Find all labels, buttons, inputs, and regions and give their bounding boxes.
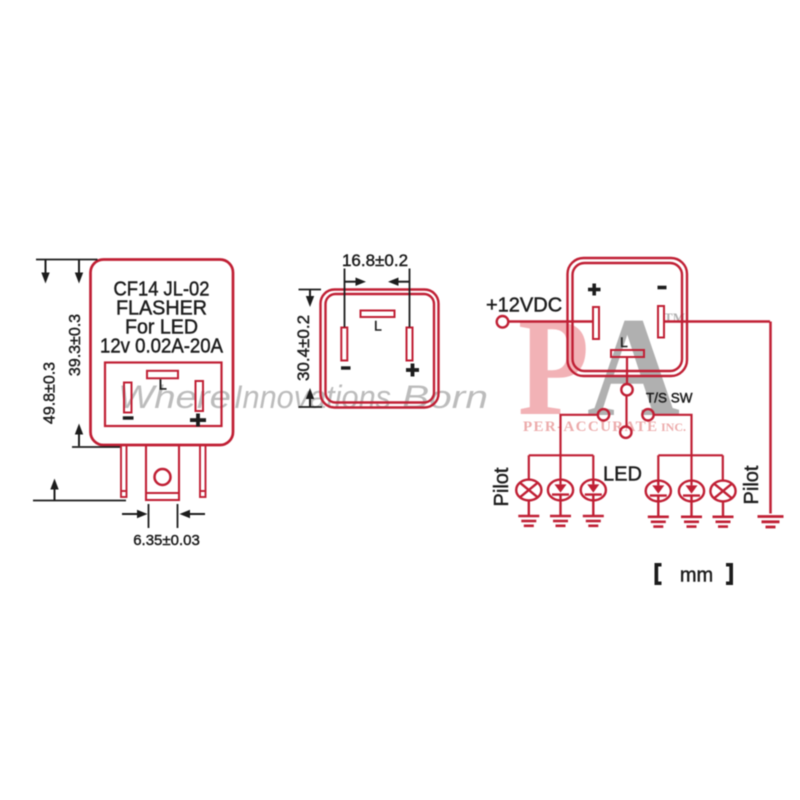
left group rail: [529, 454, 594, 456]
dimension line at body bottom: [72, 446, 120, 448]
bottom view outer outline: [321, 290, 439, 408]
svg-text:L: L: [374, 318, 382, 334]
tab hole: [155, 469, 171, 485]
dimension arrow right (16.8): [345, 278, 367, 286]
dimension arrow up (39.3): [75, 424, 83, 447]
ground (LED 2 left): [583, 516, 604, 526]
svg-text:LED: LED: [603, 464, 642, 486]
dimension arrow up (49.8): [50, 479, 58, 501]
dimension arrow left (6.35): [180, 510, 206, 518]
svg-text:30.4±0.2: 30.4±0.2: [294, 315, 313, 381]
svg-text:mm: mm: [680, 565, 713, 587]
svg-text:T/S SW: T/S SW: [646, 391, 693, 406]
svg-text:INC.: INC.: [661, 420, 686, 434]
switch pole wire: [625, 395, 627, 426]
label plus (bottom view): [406, 364, 419, 377]
right group rail: [658, 454, 723, 456]
relay body outline: [91, 260, 234, 446]
dimension line at box bottom: [299, 406, 323, 408]
bottom mounting tab: [146, 445, 179, 500]
dimension arrow right (6.35): [122, 510, 148, 518]
dimension line at box top: [299, 289, 322, 291]
relay box outer outline: [568, 258, 688, 376]
pin plus bar (schematic): [593, 307, 599, 339]
supply terminal: [497, 316, 509, 328]
dimension arrow down (30.4): [306, 290, 314, 307]
ground (battery return, far right): [758, 517, 784, 528]
watermark logo letter A: [587, 288, 680, 446]
svg-text:6.35±0.03: 6.35±0.03: [133, 532, 200, 549]
svg-text:Born: Born: [402, 379, 488, 415]
svg-text:49.8±0.3: 49.8±0.3: [42, 362, 59, 424]
bottom view inner outline: [326, 294, 435, 403]
LED 1 right: [646, 481, 671, 516]
node circle under L: [621, 384, 632, 395]
left rail drop right: [592, 455, 594, 480]
wire right throw to right group: [654, 415, 692, 456]
extension line right pin: [409, 269, 411, 328]
extension line tab right: [177, 504, 179, 528]
wire supply to plus pin: [509, 320, 594, 322]
left rail drop left: [528, 455, 530, 480]
svg-text:L: L: [159, 377, 167, 394]
pin L slot (bottom view): [361, 311, 395, 318]
label plus (schematic): [588, 284, 601, 296]
left feed drop: [559, 455, 561, 484]
pin plus slot: [196, 381, 204, 411]
dimension arrow down (39.3): [75, 260, 83, 284]
LED 2 right: [679, 481, 704, 516]
pilot lamp right: [710, 481, 735, 516]
watermark TM mark: [664, 310, 685, 325]
LED 2 left: [581, 480, 606, 515]
dimension arrow left (16.8): [388, 278, 410, 286]
svg-text:16.8±0.2: 16.8±0.2: [342, 251, 408, 270]
bottom terminal pin left: [121, 445, 127, 497]
pin plus slot (bottom view): [407, 328, 413, 361]
right feed drop: [690, 455, 692, 485]
watermark logo letter P: [518, 289, 589, 445]
watermark text INC.: [661, 420, 686, 434]
pin face inner rectangle: [105, 363, 222, 427]
units note bracket right: [726, 563, 733, 585]
svg-text:Pilot: Pilot: [491, 467, 513, 506]
ground (pilot lamp left): [518, 516, 539, 526]
ground (LED 1 right): [648, 517, 669, 527]
svg-text:L: L: [620, 334, 628, 350]
switch throw contact right: [642, 409, 653, 420]
watermark script "Where Innovations Born": [118, 379, 488, 415]
pin L bar (schematic): [611, 350, 644, 357]
svg-text:Where: Where: [118, 379, 231, 415]
svg-text:12v 0.02A-20A: 12v 0.02A-20A: [100, 336, 224, 358]
watermark text PER-ACCURATE: [523, 419, 657, 435]
ground (LED 1 left): [550, 516, 571, 526]
svg-text:+12VDC: +12VDC: [486, 295, 562, 317]
label minus: [123, 416, 134, 419]
extension line tab left: [148, 504, 150, 528]
wire minus pin to right: [664, 320, 770, 322]
wire left throw to left group: [561, 415, 598, 456]
dimension arrow up (30.4): [306, 388, 314, 407]
pin minus slot: [124, 383, 132, 413]
switch throw contact left: [598, 409, 609, 420]
relay box inner outline: [573, 263, 683, 371]
right rail drop right: [722, 455, 724, 480]
svg-text:39.3±0.3: 39.3±0.3: [67, 314, 84, 376]
label minus (schematic): [658, 286, 667, 290]
units note bracket left: [655, 563, 662, 585]
dimension line at pin bottom: [33, 500, 126, 502]
bottom terminal pin right: [200, 445, 206, 497]
extension line left pin: [344, 269, 346, 328]
svg-text:PER-ACCURATE: PER-ACCURATE: [523, 419, 657, 435]
pin minus slot (bottom view): [341, 328, 347, 361]
ground (pilot lamp right): [713, 517, 734, 527]
switch pole contact circle: [620, 427, 631, 438]
wire L pin down: [626, 357, 628, 384]
pin L slot: [147, 371, 178, 379]
dimension top reference line: [36, 259, 98, 261]
pilot lamp left: [516, 480, 541, 515]
dimension arrow down (49.8): [41, 260, 49, 284]
label plus: [190, 414, 206, 427]
LED 1 left: [548, 480, 573, 515]
svg-text:Pilot: Pilot: [741, 465, 763, 504]
wire right side down: [769, 322, 772, 514]
pin minus bar (schematic): [658, 306, 664, 338]
label minus (bottom view): [341, 366, 351, 369]
ground (LED 2 right): [681, 517, 702, 527]
right rail drop left: [657, 455, 659, 480]
